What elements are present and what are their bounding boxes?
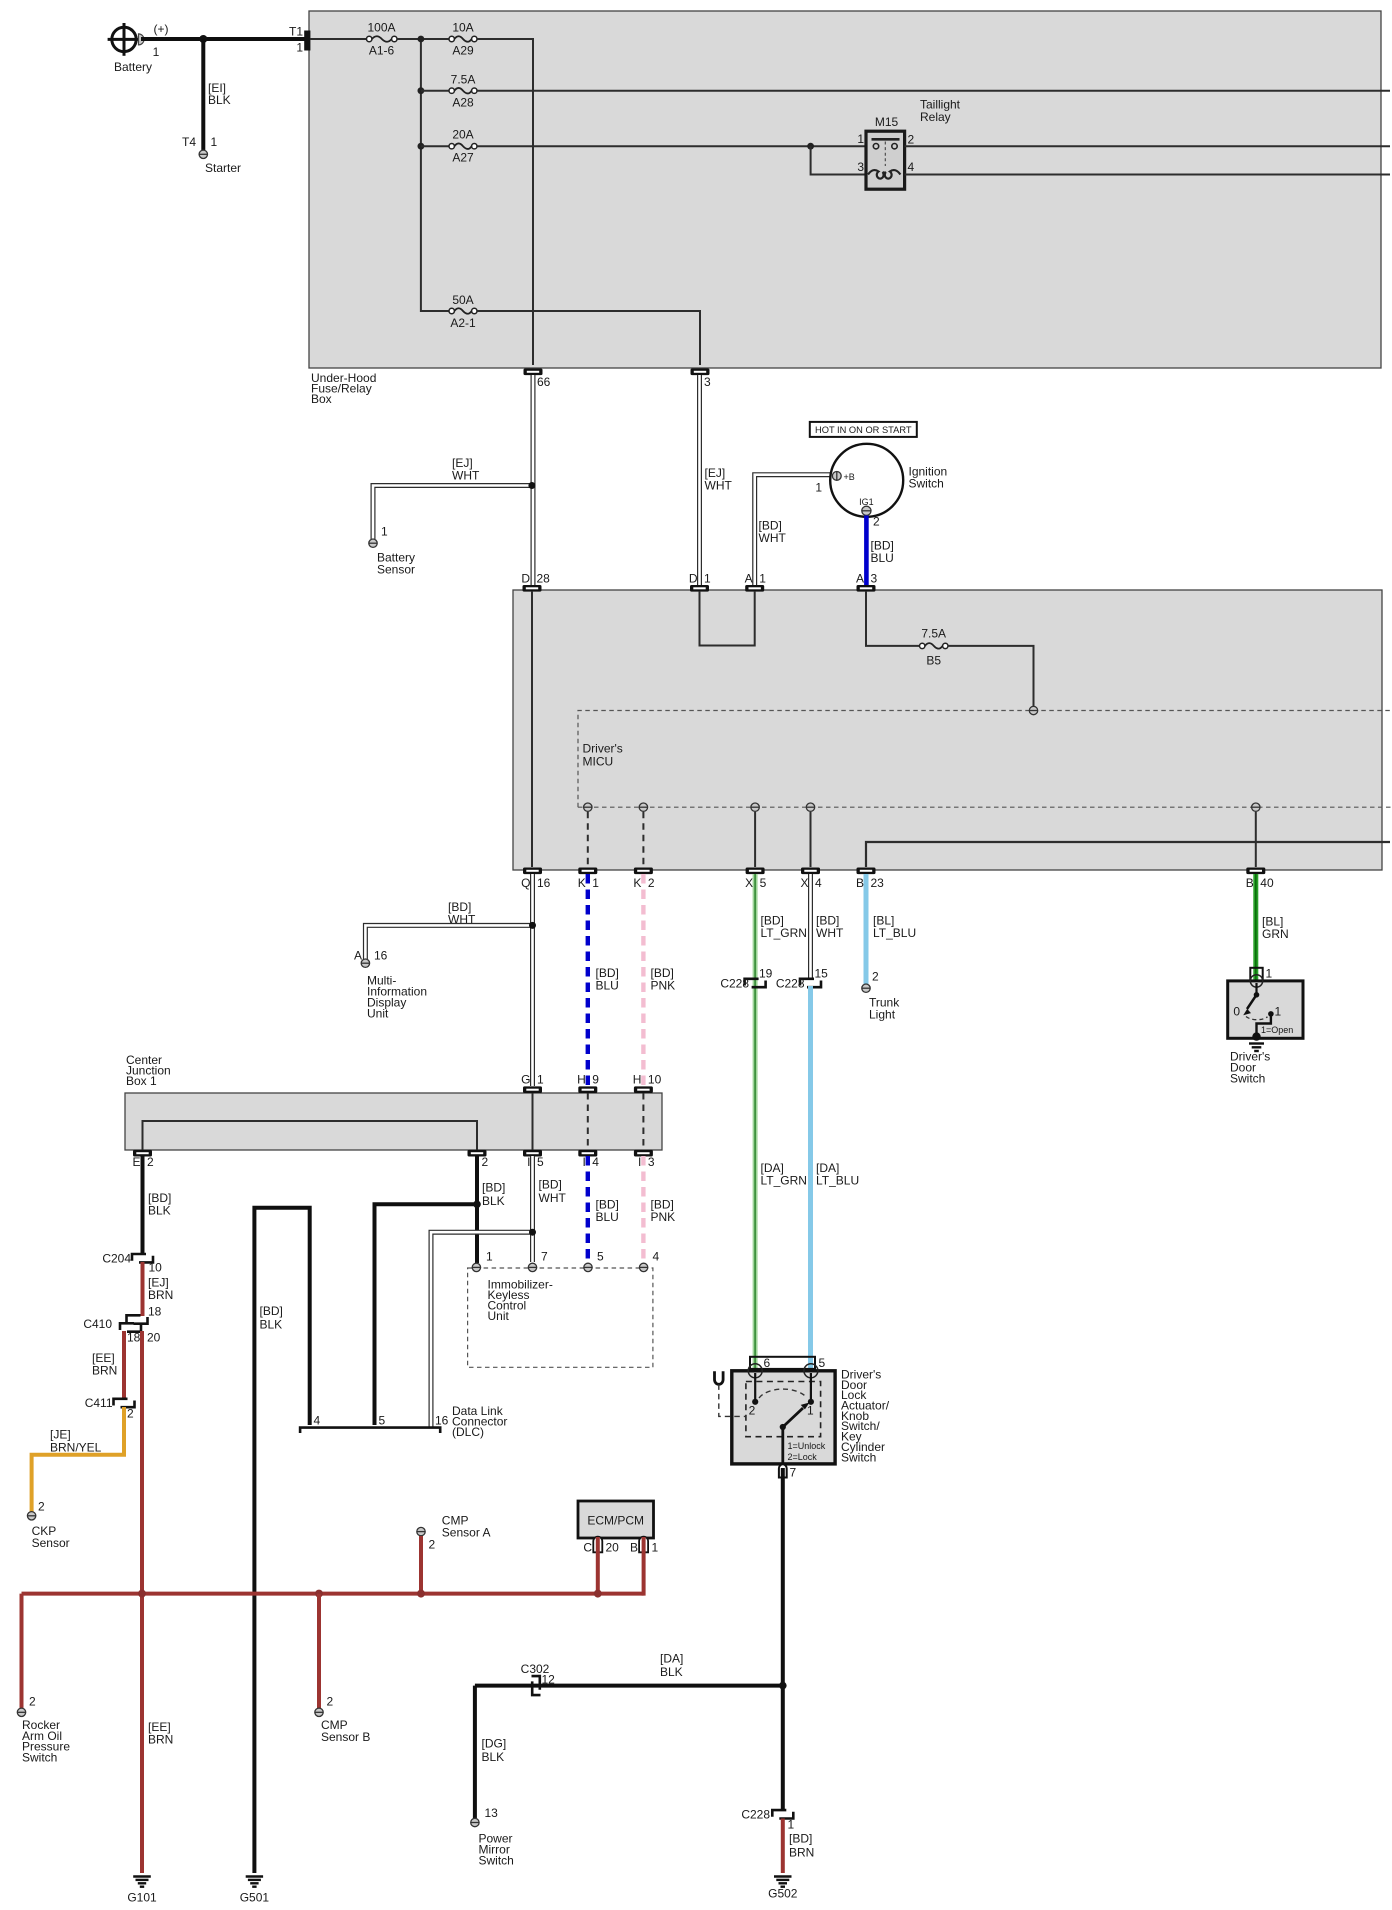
stem B40 bbox=[1255, 812, 1257, 867]
svg-text:1: 1 bbox=[537, 1073, 544, 1087]
pin K2 bbox=[633, 868, 655, 891]
pin H10 bbox=[633, 1073, 662, 1094]
svg-text:C: C bbox=[583, 1541, 592, 1555]
svg-text:C228: C228 bbox=[720, 977, 749, 991]
center junction box 1 bbox=[125, 1053, 662, 1150]
svg-text:G101: G101 bbox=[127, 1891, 157, 1905]
stem X4 bbox=[810, 812, 812, 867]
wire D28 to Q16 inside MICU bbox=[531, 591, 533, 867]
fuse 50A A2-1 bbox=[449, 293, 477, 330]
svg-text:28: 28 bbox=[537, 572, 551, 586]
svg-text:A: A bbox=[856, 572, 864, 586]
fuse 7.5A B5 bbox=[920, 627, 949, 668]
wire bus to fuse A28 bbox=[421, 90, 449, 92]
wire [DG] BLK C302 to power mirror switch bbox=[475, 1686, 506, 1818]
svg-text:G502: G502 bbox=[768, 1887, 798, 1901]
wire [BD] BLK E2 to C204 bbox=[143, 1156, 172, 1254]
svg-text:40: 40 bbox=[1260, 876, 1274, 890]
wire [EJ] WHT pin66 to D28 bbox=[452, 375, 533, 585]
connector C302 pin 12 bbox=[521, 1662, 556, 1695]
svg-text:1: 1 bbox=[153, 45, 160, 59]
svg-text:1: 1 bbox=[1266, 967, 1273, 981]
pin 3 bbox=[691, 369, 712, 390]
svg-text:[BD]: [BD] bbox=[539, 1178, 562, 1192]
svg-text:23: 23 bbox=[871, 876, 885, 890]
svg-text:Battery: Battery bbox=[114, 60, 152, 74]
svg-text:3: 3 bbox=[871, 572, 878, 586]
svg-text:2: 2 bbox=[147, 1155, 154, 1169]
wire [EJ] BRN C204 to C410 bbox=[143, 1262, 174, 1319]
pin I3 bbox=[634, 1150, 655, 1169]
stem K1 dashed bbox=[587, 812, 589, 867]
wire relay pin 2 to right edge bbox=[905, 145, 1390, 147]
svg-text:7: 7 bbox=[790, 1466, 797, 1480]
connector C410 pins 18/20 bbox=[83, 1315, 160, 1344]
svg-text:+B: +B bbox=[844, 472, 855, 482]
svg-text:A27: A27 bbox=[452, 151, 474, 165]
wire fuse A1-6 to bus bbox=[397, 38, 449, 40]
connector C228 pin 15 bbox=[776, 967, 828, 991]
svg-text:5: 5 bbox=[819, 1356, 826, 1370]
pin A1 bbox=[745, 572, 767, 592]
connector C204 pin 10 bbox=[102, 1252, 162, 1275]
ECM pin B1 bbox=[630, 1537, 659, 1555]
pin A3 bbox=[856, 572, 878, 592]
svg-text:13: 13 bbox=[485, 1806, 499, 1820]
rocker arm oil pressure switch terminal 2 bbox=[17, 1695, 70, 1765]
wire bus to CMP sensor B bbox=[317, 1594, 321, 1708]
svg-text:3: 3 bbox=[857, 160, 864, 174]
wire [BD] WHT I5 to immobilizer and DLC16 bbox=[431, 1156, 566, 1427]
red bus wire bbox=[22, 1590, 644, 1598]
svg-text:G501: G501 bbox=[240, 1891, 270, 1905]
connector C228 pin 1 bbox=[741, 1808, 794, 1832]
svg-text:7.5A: 7.5A bbox=[451, 73, 476, 87]
svg-text:10: 10 bbox=[149, 1261, 163, 1275]
svg-text:BLK: BLK bbox=[660, 1665, 683, 1679]
fuse 10A A29 bbox=[449, 21, 477, 58]
immobilizer terminal 7 bbox=[528, 1250, 548, 1272]
svg-text:1: 1 bbox=[381, 525, 388, 539]
svg-text:[BD]: [BD] bbox=[260, 1304, 283, 1318]
svg-text:Switch: Switch bbox=[22, 1750, 57, 1764]
svg-text:LT_BLU: LT_BLU bbox=[873, 926, 916, 940]
wire [BD] BLU I4 to immobilizer bbox=[588, 1156, 619, 1261]
wire battery to T1 bbox=[141, 37, 306, 41]
wire ECM C20 to bus bbox=[596, 1537, 600, 1594]
svg-text:2: 2 bbox=[908, 133, 915, 147]
door lock connector pins 6/5 bbox=[750, 1356, 826, 1370]
svg-text:BRN: BRN bbox=[789, 1846, 814, 1860]
wire T1 to fuse A1-6 bbox=[310, 38, 367, 40]
svg-text:LT_GRN: LT_GRN bbox=[761, 1174, 807, 1188]
svg-text:3: 3 bbox=[648, 1155, 655, 1169]
fuse 7.5A A28 bbox=[449, 73, 477, 110]
terminal K1 internal bbox=[584, 803, 592, 811]
svg-text:Switch: Switch bbox=[479, 1854, 514, 1868]
svg-text:5: 5 bbox=[537, 1155, 544, 1169]
data link connector DLC bbox=[300, 1404, 507, 1439]
svg-text:C411: C411 bbox=[85, 1396, 113, 1410]
battery sensor terminal 1 bbox=[369, 525, 415, 577]
svg-text:H: H bbox=[633, 1073, 642, 1087]
pin H9 bbox=[577, 1073, 599, 1094]
svg-text:5: 5 bbox=[760, 876, 767, 890]
svg-text:20: 20 bbox=[606, 1541, 620, 1555]
ignition switch bbox=[815, 444, 947, 529]
svg-text:7: 7 bbox=[541, 1250, 548, 1264]
wire [BL] LT_BLU B23 to trunk light bbox=[866, 874, 916, 984]
wire [BD] WHT A1 to ignition switch bbox=[755, 475, 831, 585]
svg-text:Sensor: Sensor bbox=[377, 563, 415, 577]
svg-text:B: B bbox=[1246, 876, 1254, 890]
wire ECM B1 to bus bbox=[642, 1537, 646, 1596]
wire fuse A28 to right edge bbox=[477, 90, 1390, 92]
stem K2 dashed bbox=[642, 812, 644, 867]
pin I5 bbox=[523, 1150, 544, 1169]
wire fuse B5 to MICU terminal bbox=[948, 646, 1034, 707]
connector C411 pin 2 bbox=[85, 1396, 135, 1421]
svg-text:1: 1 bbox=[788, 1818, 795, 1832]
driver's MICU dashed outline bbox=[578, 711, 1392, 808]
svg-text:WHT: WHT bbox=[816, 926, 844, 940]
terminal B40 internal bbox=[1252, 803, 1260, 811]
driver's door lock actuator box bbox=[732, 1364, 890, 1465]
svg-text:BLK: BLK bbox=[148, 1204, 171, 1218]
fuse 20A A27 bbox=[449, 128, 477, 165]
svg-text:A: A bbox=[745, 572, 753, 586]
svg-text:B: B bbox=[856, 876, 864, 890]
svg-text:BLU: BLU bbox=[871, 551, 894, 565]
svg-text:Driver's: Driver's bbox=[583, 742, 623, 756]
svg-text:LT_BLU: LT_BLU bbox=[816, 1174, 859, 1188]
wire [EE] BRN C410 to C411 bbox=[92, 1331, 124, 1399]
svg-text:3: 3 bbox=[704, 375, 711, 389]
svg-text:I: I bbox=[638, 1155, 641, 1169]
CMP sensor B terminal 2 bbox=[315, 1695, 371, 1745]
svg-text:4: 4 bbox=[314, 1414, 321, 1428]
wire bus to fuse A27 bbox=[421, 145, 449, 147]
battery B1 bbox=[108, 22, 169, 74]
svg-text:Sensor A: Sensor A bbox=[442, 1526, 491, 1540]
immobilizer terminal 1 bbox=[472, 1250, 493, 1272]
svg-text:B5: B5 bbox=[926, 654, 941, 668]
wire [BD] BLU K1 to H9 bbox=[588, 874, 619, 1086]
svg-text:18: 18 bbox=[127, 1331, 141, 1345]
svg-text:4: 4 bbox=[592, 1155, 599, 1169]
svg-text:66: 66 bbox=[537, 375, 551, 389]
svg-text:10: 10 bbox=[648, 1073, 662, 1087]
terminal X5 internal bbox=[751, 803, 759, 811]
svg-text:Sensor: Sensor bbox=[32, 1536, 70, 1550]
svg-text:A: A bbox=[354, 949, 362, 963]
svg-text:BRN: BRN bbox=[148, 1288, 173, 1302]
wire fuse A27 to relay pin 1 bbox=[477, 143, 866, 150]
svg-text:16: 16 bbox=[537, 876, 551, 890]
pin X4 bbox=[800, 868, 822, 891]
power mirror switch terminal 13 bbox=[471, 1806, 514, 1868]
svg-text:G: G bbox=[521, 1073, 530, 1087]
svg-text:2: 2 bbox=[327, 1695, 334, 1709]
svg-text:BLU: BLU bbox=[596, 1210, 619, 1224]
svg-text:1: 1 bbox=[211, 135, 218, 149]
svg-text:1: 1 bbox=[1275, 1005, 1282, 1019]
wire [JE] BRN/YEL C411 to CKP sensor bbox=[32, 1407, 124, 1512]
svg-text:1: 1 bbox=[486, 1250, 493, 1264]
svg-text:BRN: BRN bbox=[92, 1364, 117, 1378]
HOT IN ON OR START box bbox=[810, 422, 917, 437]
wire fuse A29 to pin 66 bbox=[477, 39, 533, 365]
wire A3 to fuse B5 bbox=[866, 591, 920, 646]
svg-text:1=Unlock: 1=Unlock bbox=[788, 1441, 826, 1451]
svg-text:HOT IN ON OR START: HOT IN ON OR START bbox=[815, 425, 912, 435]
wire H10 to I3 dashed bbox=[642, 1093, 644, 1150]
svg-text:Unit: Unit bbox=[367, 1007, 389, 1021]
ground G101 bbox=[127, 1877, 157, 1905]
svg-text:19: 19 bbox=[759, 967, 773, 981]
wire CMP sensor A to bus bbox=[419, 1536, 423, 1594]
terminal on MICU dashed line bbox=[1029, 706, 1037, 714]
svg-text:I: I bbox=[582, 1155, 585, 1169]
svg-text:Switch: Switch bbox=[1230, 1072, 1265, 1086]
svg-text:2: 2 bbox=[872, 970, 879, 984]
svg-text:MICU: MICU bbox=[583, 755, 614, 769]
svg-text:BLK: BLK bbox=[260, 1318, 283, 1332]
svg-text:A29: A29 bbox=[452, 44, 474, 58]
wire B23 inside MICU bbox=[866, 842, 1390, 867]
multi-information display unit terminal A16 bbox=[354, 949, 427, 1021]
wire [EJ] WHT pin3 to D1 bbox=[700, 375, 733, 585]
svg-text:H: H bbox=[577, 1073, 586, 1087]
svg-text:Switch: Switch bbox=[841, 1450, 876, 1464]
wire [BD] BLU IG1 to A3 bbox=[866, 516, 893, 586]
wire [BD] BRN C228 to G502 bbox=[783, 1819, 815, 1874]
ECM pin C20 bbox=[583, 1537, 619, 1555]
fuse 100A A1-6 bbox=[367, 21, 397, 58]
svg-text:Box: Box bbox=[311, 392, 332, 406]
svg-text:WHT: WHT bbox=[539, 1191, 567, 1205]
svg-text:BLK: BLK bbox=[482, 1194, 505, 1208]
pin B40 bbox=[1246, 868, 1274, 891]
svg-text:2: 2 bbox=[648, 876, 655, 890]
svg-text:D: D bbox=[521, 572, 530, 586]
wire branch to battery sensor bbox=[373, 482, 535, 539]
taillight relay M15 bbox=[857, 98, 960, 190]
svg-text:BLK: BLK bbox=[482, 1750, 505, 1764]
ECM/PCM bbox=[578, 1501, 654, 1538]
wire fuse A2-1 to pin 3 bbox=[477, 311, 700, 365]
svg-text:I: I bbox=[527, 1155, 530, 1169]
svg-text:4: 4 bbox=[815, 876, 822, 890]
key cylinder key symbol bbox=[715, 1371, 746, 1416]
svg-text:16: 16 bbox=[374, 949, 388, 963]
wire E2 to pin2 inside junction box bbox=[143, 1121, 478, 1150]
immobilizer terminal 4 bbox=[639, 1250, 659, 1272]
pin D1 bbox=[689, 572, 711, 592]
svg-text:BLK: BLK bbox=[208, 93, 231, 107]
svg-text:2: 2 bbox=[29, 1695, 36, 1709]
svg-text:E: E bbox=[132, 1155, 140, 1169]
svg-text:4: 4 bbox=[908, 160, 915, 174]
svg-text:BRN/YEL: BRN/YEL bbox=[50, 1441, 102, 1455]
svg-text:Q: Q bbox=[521, 876, 530, 890]
door switch ground bbox=[1249, 1044, 1264, 1052]
svg-text:[DG]: [DG] bbox=[482, 1737, 507, 1751]
trunk light terminal 2 bbox=[862, 970, 900, 1022]
CMP sensor A terminal 2 bbox=[417, 1514, 491, 1552]
svg-text:GRN: GRN bbox=[1262, 927, 1289, 941]
terminal T1 bbox=[289, 25, 310, 55]
label [DA] LT_GRN bbox=[761, 1161, 807, 1188]
wire [DA] BLK door lock to C228/C302 bbox=[475, 1468, 787, 1810]
wire [BD] WHT X4 to C228 bbox=[811, 874, 844, 980]
pin 2 bbox=[468, 1150, 489, 1169]
wire relay pin 4 to right edge bbox=[905, 174, 1390, 176]
svg-text:Light: Light bbox=[869, 1008, 896, 1022]
pin X5 bbox=[745, 868, 767, 891]
wire [EE] BRN C410 pin20 to G101 bbox=[142, 1331, 173, 1873]
wire G1 to I5 inside junction box bbox=[532, 1093, 534, 1150]
wire [BD] BLK pin2 to immobilizer and DLC5 bbox=[375, 1156, 506, 1425]
svg-text:T4: T4 bbox=[182, 135, 196, 149]
svg-text:PNK: PNK bbox=[651, 1210, 676, 1224]
wire [BD] PNK K2 to H10 bbox=[643, 874, 675, 1086]
under-hood fuse/relay box bbox=[309, 11, 1381, 406]
svg-text:16: 16 bbox=[435, 1414, 449, 1428]
svg-text:1: 1 bbox=[592, 876, 599, 890]
svg-text:LT_GRN: LT_GRN bbox=[761, 926, 807, 940]
svg-text:Unit: Unit bbox=[488, 1309, 510, 1323]
door switch connector pin 1 bbox=[1250, 967, 1272, 981]
immobilizer-keyless control unit box bbox=[468, 1268, 653, 1367]
svg-text:A1-6: A1-6 bbox=[369, 44, 395, 58]
pin B23 bbox=[856, 868, 884, 891]
svg-text:M15: M15 bbox=[875, 115, 899, 129]
svg-text:Sensor B: Sensor B bbox=[321, 1730, 370, 1744]
svg-text:2: 2 bbox=[482, 1155, 489, 1169]
wire [BD] WHT Q16 to G1 bbox=[448, 874, 533, 1086]
svg-text:K: K bbox=[633, 876, 641, 890]
svg-text:X: X bbox=[745, 876, 753, 890]
driver's door switch box bbox=[1228, 975, 1303, 1086]
svg-text:WHT: WHT bbox=[705, 479, 733, 493]
driver's MICU box bbox=[513, 590, 1382, 870]
svg-text:X: X bbox=[800, 876, 808, 890]
wire D1 to A1 inside MICU bbox=[700, 591, 755, 646]
starter terminal T4/1 bbox=[182, 135, 241, 175]
svg-text:5: 5 bbox=[597, 1250, 604, 1264]
svg-text:1: 1 bbox=[652, 1541, 659, 1555]
wire [BL] GRN B40 to door switch bbox=[1256, 874, 1289, 980]
svg-text:1: 1 bbox=[815, 481, 822, 495]
wire bus to rocker arm switch bbox=[20, 1594, 24, 1708]
svg-text:50A: 50A bbox=[452, 293, 473, 307]
terminal X4 internal bbox=[806, 803, 814, 811]
svg-text:9: 9 bbox=[592, 1073, 599, 1087]
ground G502 bbox=[768, 1877, 798, 1901]
svg-text:WHT: WHT bbox=[452, 469, 480, 483]
svg-text:Relay: Relay bbox=[920, 110, 951, 124]
svg-text:A2-1: A2-1 bbox=[450, 316, 476, 330]
svg-text:BRN: BRN bbox=[148, 1733, 173, 1747]
svg-text:[BD]: [BD] bbox=[789, 1832, 812, 1846]
wire branch to relay pin 3 bbox=[811, 146, 866, 174]
wire [BD] PNK I3 to immobilizer bbox=[643, 1156, 675, 1261]
svg-text:[JE]: [JE] bbox=[50, 1428, 71, 1442]
svg-text:1: 1 bbox=[704, 572, 711, 586]
wire branch to multi-information display bbox=[365, 922, 536, 959]
svg-text:IG1: IG1 bbox=[859, 497, 874, 507]
svg-text:1: 1 bbox=[807, 1404, 814, 1418]
junction node battery/starter bbox=[199, 35, 207, 43]
wire [BD] BLK DLC4 to G501 bbox=[254, 1208, 309, 1873]
pin E2 bbox=[132, 1150, 154, 1169]
wire [DA] LT_BLU C228 to door lock bbox=[811, 986, 860, 1370]
svg-text:1: 1 bbox=[759, 572, 766, 586]
stem X5 bbox=[754, 812, 756, 867]
svg-text:2: 2 bbox=[127, 1407, 134, 1421]
svg-text:5: 5 bbox=[379, 1414, 386, 1428]
wire [EI] BLK to starter bbox=[203, 39, 230, 150]
svg-text:20: 20 bbox=[147, 1331, 161, 1345]
svg-text:K: K bbox=[578, 876, 586, 890]
svg-text:Switch: Switch bbox=[909, 477, 944, 491]
wire [BD] LT_GRN X5 to C228 bbox=[755, 874, 807, 1370]
svg-text:6: 6 bbox=[764, 1356, 771, 1370]
pin I4 bbox=[578, 1150, 599, 1169]
svg-text:T1: T1 bbox=[289, 25, 303, 39]
svg-text:BLU: BLU bbox=[596, 979, 619, 993]
svg-text:C410: C410 bbox=[83, 1317, 112, 1331]
pin D28 bbox=[521, 572, 550, 592]
door lock pin 7 bbox=[779, 1464, 797, 1479]
svg-text:D: D bbox=[689, 572, 698, 586]
svg-text:B: B bbox=[630, 1541, 638, 1555]
pin 66 bbox=[524, 369, 551, 390]
svg-text:2: 2 bbox=[873, 515, 880, 529]
immobilizer terminal 5 bbox=[584, 1250, 604, 1272]
svg-text:2: 2 bbox=[429, 1538, 436, 1552]
svg-text:7.5A: 7.5A bbox=[921, 627, 946, 641]
svg-text:2: 2 bbox=[38, 1500, 45, 1514]
svg-text:4: 4 bbox=[653, 1250, 660, 1264]
connector C228 pin 19 bbox=[720, 967, 772, 991]
svg-text:1: 1 bbox=[296, 41, 303, 55]
svg-text:[DA]: [DA] bbox=[660, 1652, 683, 1666]
wire H9 to I4 dashed bbox=[587, 1093, 589, 1150]
CKP sensor terminal 2 bbox=[27, 1500, 69, 1551]
vertical bus in fuse box bbox=[418, 36, 450, 311]
svg-text:C228: C228 bbox=[776, 977, 805, 991]
svg-text:2: 2 bbox=[749, 1404, 756, 1418]
svg-text:(DLC): (DLC) bbox=[452, 1425, 484, 1439]
ground G501 bbox=[240, 1877, 270, 1905]
terminal K2 internal bbox=[639, 803, 647, 811]
svg-text:2=Lock: 2=Lock bbox=[788, 1452, 818, 1462]
svg-text:(+): (+) bbox=[154, 22, 169, 36]
svg-text:10A: 10A bbox=[452, 21, 473, 35]
svg-text:18: 18 bbox=[148, 1305, 162, 1319]
svg-text:0: 0 bbox=[1233, 1005, 1240, 1019]
pin K1 bbox=[578, 868, 600, 891]
svg-text:1=Open: 1=Open bbox=[1261, 1025, 1293, 1035]
svg-text:PNK: PNK bbox=[651, 979, 676, 993]
svg-text:[BD]: [BD] bbox=[482, 1181, 505, 1195]
svg-text:15: 15 bbox=[815, 967, 829, 981]
svg-text:C204: C204 bbox=[102, 1252, 131, 1266]
svg-text:ECM/PCM: ECM/PCM bbox=[587, 1514, 644, 1528]
svg-text:Box 1: Box 1 bbox=[126, 1074, 157, 1088]
